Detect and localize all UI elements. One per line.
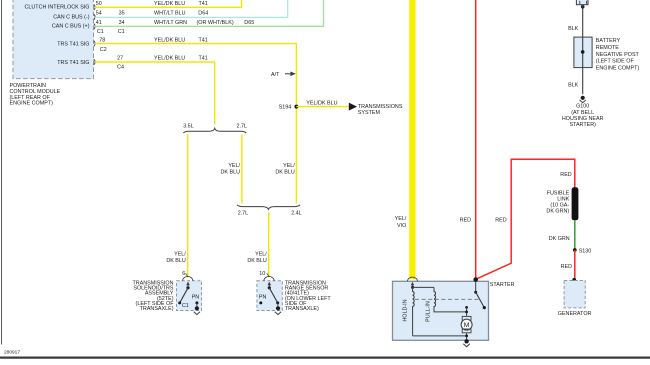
svg-text:78: 78 xyxy=(99,37,105,43)
PCM connector bracket pin 27 xyxy=(94,59,95,65)
svg-text:CLUTCH INTERLOCK SIG: CLUTCH INTERLOCK SIG xyxy=(25,5,90,11)
splitter brace 2 (2.7L / 2.4L merge) xyxy=(237,205,300,209)
PCM connector bracket pin 54 xyxy=(94,14,95,20)
wire color label YEL/DK BLU (range sensor branch) xyxy=(247,251,267,263)
ground G100 dot xyxy=(581,96,585,100)
svg-text:STARTER: STARTER xyxy=(490,282,515,288)
svg-text:D65: D65 xyxy=(244,20,254,26)
svg-text:GENERATOR: GENERATOR xyxy=(558,311,592,317)
splitter brace 1 (3.5L / 2.7L engine split) xyxy=(183,128,246,133)
wire: YEL/DK BLU 3.5L branch down to transmission solenoid xyxy=(187,134,189,277)
wire: RED branch to fusible link and generator xyxy=(476,159,575,279)
svg-text:C4: C4 xyxy=(117,64,124,70)
svg-text:ENGINE COMPT): ENGINE COMPT) xyxy=(10,101,54,107)
svg-text:2.7L: 2.7L xyxy=(237,123,248,129)
wire: YEL/DK BLU 2.7L branch down to 2nd splitter xyxy=(241,134,243,203)
solenoid switch blade to C1 contact xyxy=(180,288,188,303)
svg-text:C1: C1 xyxy=(118,29,125,35)
generator G1 box xyxy=(564,281,585,308)
battery remote negative post box xyxy=(574,37,592,68)
ground label G100 xyxy=(562,104,604,129)
svg-text:DK BLU: DK BLU xyxy=(166,258,186,264)
svg-text:SYSTEM: SYSTEM xyxy=(358,110,381,116)
splice S130 junction dot xyxy=(573,248,577,252)
svg-text:LINK: LINK xyxy=(557,196,569,202)
wire: RED battery feed from top edge down to starter terminal xyxy=(475,0,477,279)
generator terminal dot xyxy=(572,278,576,282)
svg-text:RED: RED xyxy=(560,172,571,178)
wire: YEL/DK BLU T41 from PCM pin 78 right then down to 2nd splitter xyxy=(95,44,296,204)
hold-in return rail xyxy=(413,335,467,337)
svg-text:YEL/: YEL/ xyxy=(174,251,186,257)
wire color label YEL/DK BLU (solenoid branch) xyxy=(166,251,186,263)
wire: YEL/DK BLU branch from S194 to transmissions system xyxy=(296,106,349,108)
wire from motor feed node to motor xyxy=(466,307,468,316)
svg-text:50: 50 xyxy=(96,1,102,7)
off-page arrow to transmissions system xyxy=(349,103,357,111)
svg-text:2.7L: 2.7L xyxy=(238,211,249,217)
svg-text:YEL/: YEL/ xyxy=(283,163,295,169)
svg-text:G100: G100 xyxy=(576,104,589,110)
A/T applicability label with arrow xyxy=(271,72,296,79)
svg-text:PN: PN xyxy=(192,295,200,301)
svg-text:VIO: VIO xyxy=(397,223,406,229)
svg-text:YEL/DK BLU: YEL/DK BLU xyxy=(306,100,337,106)
svg-text:ENGINE COMPT): ENGINE COMPT) xyxy=(596,65,640,71)
transmission solenoid/TRS assembly box xyxy=(177,281,202,311)
PCM connector bracket pin 50 xyxy=(94,5,95,11)
connector arc at solenoid box entry xyxy=(183,276,193,280)
svg-text:CAN C BUS (-): CAN C BUS (-) xyxy=(53,14,89,20)
splice S194 junction dot xyxy=(294,105,298,109)
svg-text:TRS T41 SIG: TRS T41 SIG xyxy=(57,41,89,47)
svg-text:HOUSING NEAR: HOUSING NEAR xyxy=(562,116,604,122)
svg-text:280917: 280917 xyxy=(4,350,20,356)
grounded contact dot and lead (range sensor) xyxy=(276,301,280,310)
wire: YEL/DK BLU T41 from PCM pin 27 right then down to 1st splitter xyxy=(95,62,215,125)
svg-text:DK BLU: DK BLU xyxy=(221,170,241,176)
battery remote negative post dot xyxy=(581,50,585,54)
wire to pull-in coil xyxy=(413,286,434,288)
svg-text:M: M xyxy=(464,322,470,329)
transmission range sensor box xyxy=(257,281,282,311)
wire: BLK from battery negative down to G100 xyxy=(582,5,584,95)
svg-text:BATTERY: BATTERY xyxy=(596,38,621,44)
ground chevron below solenoid box xyxy=(194,312,200,315)
svg-text:DK BLU: DK BLU xyxy=(275,170,295,176)
solenoid switch common terminal with up arrow xyxy=(186,282,190,290)
svg-text:2.4L: 2.4L xyxy=(291,211,302,217)
svg-text:C1: C1 xyxy=(97,29,104,35)
wire: WHT/LT GRN D65 from PCM pin 41 up to top edge xyxy=(95,0,324,26)
wire: YEL/DK BLU merged branch down to transmission range sensor xyxy=(268,212,270,277)
hold-in coil L1 xyxy=(413,287,415,336)
svg-text:CAN C BUS (+): CAN C BUS (+) xyxy=(52,24,90,30)
PCM connector bracket pin 78 xyxy=(94,41,95,47)
svg-text:A/T: A/T xyxy=(271,72,280,78)
svg-text:YEL/DK BLU: YEL/DK BLU xyxy=(154,56,185,62)
wire: RED from S130 down to generator xyxy=(574,250,576,280)
svg-text:54: 54 xyxy=(96,11,102,17)
svg-text:TRANSAXLE): TRANSAXLE) xyxy=(140,306,174,312)
pull-in coil L2 xyxy=(434,287,467,312)
PN contact dot (range sensor, open) xyxy=(259,301,262,304)
svg-text:S130: S130 xyxy=(579,248,592,254)
wire color label YEL/DK BLU (pin 78 branch) xyxy=(275,163,295,176)
PCM connector bracket pin 41 xyxy=(94,24,95,30)
svg-text:41: 41 xyxy=(96,20,102,26)
PN contact dot and ground lead (solenoid) xyxy=(195,301,199,310)
PCM name label xyxy=(10,83,61,107)
pull-in return junction dot xyxy=(465,311,468,314)
range sensor switch common terminal with up arrow xyxy=(268,282,272,290)
svg-text:3.5L: 3.5L xyxy=(183,123,194,129)
wire: thick YEL/VIO feed from top edge down to starter xyxy=(409,0,415,279)
mechanical linkage dashed line xyxy=(415,298,479,300)
svg-text:DK GRN: DK GRN xyxy=(549,236,570,242)
svg-text:T41: T41 xyxy=(199,37,208,43)
svg-text:T41: T41 xyxy=(199,56,208,62)
wire: WHT/LT BLU D64 from PCM pin 54 up to top edge xyxy=(95,0,288,17)
battery negative pigtail box (cut off at top edge) xyxy=(576,0,588,5)
svg-text:RED: RED xyxy=(460,217,471,223)
svg-text:(OR WHT/BLK): (OR WHT/BLK) xyxy=(197,20,234,26)
range sensor switch blade to grounded contact xyxy=(269,288,277,303)
starter feed terminal with up arrow xyxy=(411,282,415,289)
svg-text:6: 6 xyxy=(182,271,185,277)
svg-text:FUSIBLE: FUSIBLE xyxy=(547,190,570,196)
svg-text:RED: RED xyxy=(561,264,572,270)
svg-text:TRS T41 SIG: TRS T41 SIG xyxy=(57,60,89,66)
svg-text:TRANSAXLE): TRANSAXLE) xyxy=(285,306,319,312)
starter case ground dot xyxy=(464,339,468,343)
fusible link label xyxy=(546,190,569,214)
svg-text:D64: D64 xyxy=(198,11,208,17)
svg-text:YEL/: YEL/ xyxy=(255,251,267,257)
motor feed node dot xyxy=(465,306,468,309)
svg-text:HOLD-IN: HOLD-IN xyxy=(403,299,409,321)
starter motor M xyxy=(461,316,472,341)
svg-text:10: 10 xyxy=(259,271,265,277)
ground chevron below range sensor box xyxy=(275,312,281,315)
wire color label YEL/VIO xyxy=(395,216,407,229)
svg-text:STARTER): STARTER) xyxy=(569,122,596,128)
destination label TRANSMISSIONS SYSTEM xyxy=(358,104,403,116)
starter M1 box xyxy=(393,281,489,340)
svg-text:T41: T41 xyxy=(199,1,208,7)
svg-text:PULL-IN: PULL-IN xyxy=(425,301,431,322)
svg-text:PN: PN xyxy=(259,295,267,301)
svg-text:C2: C2 xyxy=(100,47,107,53)
starter B+ terminal junction dot xyxy=(473,277,478,282)
svg-text:27: 27 xyxy=(117,56,123,62)
svg-text:DK BLU: DK BLU xyxy=(247,258,267,264)
powertrain control module U1 (PCM) box xyxy=(13,0,94,79)
svg-text:(10 GA-: (10 GA- xyxy=(550,203,569,209)
svg-text:YEL/: YEL/ xyxy=(395,216,407,222)
svg-text:YEL/DK BLU: YEL/DK BLU xyxy=(154,37,185,43)
wire: DK GRN segment below fusible link xyxy=(574,220,576,250)
svg-text:RED: RED xyxy=(495,217,506,223)
ground chevron below starter xyxy=(463,344,470,347)
rail junction dot xyxy=(465,335,468,338)
wire color label YEL/DK BLU (2.7L branch) xyxy=(221,163,241,176)
svg-text:YEL/: YEL/ xyxy=(228,163,240,169)
C1 contact dot xyxy=(178,301,181,304)
svg-text:34: 34 xyxy=(119,20,125,26)
starter solenoid switch xyxy=(474,281,486,309)
svg-text:(LEFT SIDE OF: (LEFT SIDE OF xyxy=(596,59,635,65)
svg-text:BLK: BLK xyxy=(568,26,579,32)
fusible link F1 (10 GA- DK GRN) xyxy=(572,187,579,220)
svg-text:S194: S194 xyxy=(279,104,292,110)
svg-text:(AT BELL: (AT BELL xyxy=(571,110,594,116)
battery negative terminal dot xyxy=(581,5,585,9)
battery remote negative post label xyxy=(596,38,640,71)
svg-text:NEGATIVE POST: NEGATIVE POST xyxy=(596,52,640,58)
svg-text:C1: C1 xyxy=(182,303,189,309)
svg-text:REMOTE: REMOTE xyxy=(596,45,619,51)
svg-text:BLK: BLK xyxy=(568,83,579,89)
ground G100 chevron xyxy=(580,100,586,103)
svg-text:YEL/DK BLU: YEL/DK BLU xyxy=(154,1,185,7)
wire: YEL/DK BLU T41 from PCM pin 50 up to top edge xyxy=(95,0,242,7)
svg-text:WHT/LT BLU: WHT/LT BLU xyxy=(154,11,186,17)
connector arc at starter yellow feed entry xyxy=(408,277,418,281)
connector arc at range sensor box entry xyxy=(264,276,274,280)
transmission range sensor name label xyxy=(285,281,332,313)
svg-text:35: 35 xyxy=(119,11,125,17)
svg-text:WHT/LT GRN: WHT/LT GRN xyxy=(154,20,187,26)
transmission solenoid name label xyxy=(132,281,174,313)
svg-text:DK GRN): DK GRN) xyxy=(546,209,569,215)
